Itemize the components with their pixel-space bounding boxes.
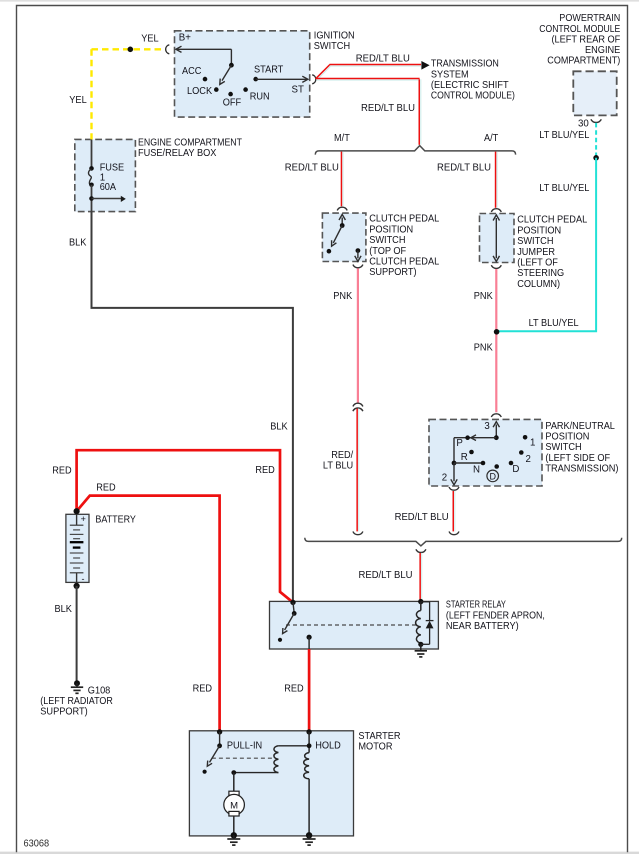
ignition contact ACC xyxy=(182,66,207,81)
PN contact D circled xyxy=(487,464,499,482)
clutch switch connector bottom xyxy=(353,265,363,268)
svg-text:N: N xyxy=(473,465,480,476)
svg-text:(LEFT SIDE OF: (LEFT SIDE OF xyxy=(545,453,610,464)
label RED (hold) xyxy=(284,683,303,694)
svg-text:2: 2 xyxy=(526,454,531,465)
svg-text:CLUTCH PEDAL: CLUTCH PEDAL xyxy=(369,257,440,268)
svg-text:ENGINE: ENGINE xyxy=(585,45,621,56)
label LT BLU/YEL mid xyxy=(539,183,590,194)
diagram number 63068 xyxy=(24,838,50,849)
label LT BLU/YEL at jog xyxy=(529,318,580,329)
wire RED/LT BLU M/T branch xyxy=(341,152,343,207)
ignition B+ connector xyxy=(166,45,170,54)
svg-text:B+: B+ xyxy=(179,33,191,44)
svg-text:RED: RED xyxy=(52,465,71,476)
svg-text:CLUTCH PEDAL: CLUTCH PEDAL xyxy=(517,215,588,226)
PN switch connector top xyxy=(491,414,501,417)
clutch pedal position switch jumper box xyxy=(480,214,588,290)
page top strip xyxy=(0,0,639,2)
label RED/LT BLU (A/T) xyxy=(437,163,491,174)
svg-text:(LEFT RADIATOR: (LEFT RADIATOR xyxy=(40,696,113,707)
jumper connector bottom xyxy=(491,265,501,268)
splice PNK / LT BLU/YEL xyxy=(494,329,500,335)
wire RED relay to starter hold xyxy=(308,649,311,732)
starter relay box xyxy=(270,600,545,650)
svg-text:STARTER RELAY: STARTER RELAY xyxy=(446,600,506,611)
motor branch xyxy=(231,770,278,791)
svg-text:R: R xyxy=(461,452,468,463)
ignition contact RUN xyxy=(243,87,269,102)
svg-text:D: D xyxy=(512,464,519,475)
svg-text:POSITION: POSITION xyxy=(369,224,413,235)
svg-text:STARTER: STARTER xyxy=(358,731,400,742)
PN contact R xyxy=(461,450,474,464)
PN contact 1 xyxy=(523,435,536,449)
svg-text:LT BLU: LT BLU xyxy=(323,460,353,471)
splice on LT BLU/YEL xyxy=(593,155,599,161)
svg-text:OFF: OFF xyxy=(223,98,241,109)
svg-text:BLK: BLK xyxy=(270,421,288,432)
svg-text:PNK: PNK xyxy=(333,291,352,302)
fuse F1 60A xyxy=(88,139,124,211)
fuse feed branch arrow xyxy=(89,196,126,202)
svg-text:SUPPORT): SUPPORT) xyxy=(369,267,416,278)
svg-text:SWITCH: SWITCH xyxy=(369,235,405,246)
label PNK (left) xyxy=(333,291,352,302)
svg-text:RED: RED xyxy=(193,683,212,694)
wire RED/LT BLU ST to transmission system xyxy=(316,65,421,81)
label BLK (fuse) xyxy=(69,237,87,248)
PN pin 3 xyxy=(484,421,499,438)
label RED/LT BLU (branch feed) xyxy=(361,103,415,114)
connector cup below brace xyxy=(416,549,426,552)
ignition switch box xyxy=(175,30,355,117)
svg-text:RED/LT BLU: RED/LT BLU xyxy=(356,53,410,64)
jumper connector top xyxy=(491,209,501,212)
relay actuation dashed line xyxy=(286,624,417,626)
relay coil xyxy=(416,599,424,647)
svg-text:(LEFT FENDER APRON,: (LEFT FENDER APRON, xyxy=(446,610,545,621)
wire RED battery to starter pull-in xyxy=(77,496,220,732)
svg-text:SWITCH: SWITCH xyxy=(545,442,581,453)
svg-text:RED/LT BLU: RED/LT BLU xyxy=(437,163,491,174)
ignition contact OFF xyxy=(223,92,241,109)
svg-text:BLK: BLK xyxy=(69,237,87,248)
motor M xyxy=(224,791,245,835)
hold coil xyxy=(304,729,341,835)
svg-text:RUN: RUN xyxy=(250,91,270,102)
label YEL left xyxy=(69,95,87,106)
svg-text:30: 30 xyxy=(578,118,589,129)
label LT BLU/YEL upper xyxy=(539,130,590,141)
svg-text:M: M xyxy=(230,800,238,811)
svg-text:CONTROL MODULE): CONTROL MODULE) xyxy=(431,91,515,102)
label RED/LT BLU (M/T) xyxy=(285,163,339,174)
svg-text:(LEFT REAR OF: (LEFT REAR OF xyxy=(552,34,621,45)
label RED/ LT BLU two lines xyxy=(323,450,354,472)
starter motor ground left xyxy=(227,832,240,845)
park/neutral position switch box xyxy=(429,419,619,486)
svg-text:YEL: YEL xyxy=(69,95,87,106)
page bottom strip xyxy=(0,852,639,854)
svg-text:CONTROL MODULE: CONTROL MODULE xyxy=(539,24,620,35)
starter dashed actuation line xyxy=(212,757,276,759)
clutch switch connector top xyxy=(337,207,347,210)
svg-text:JUMPER: JUMPER xyxy=(517,247,555,258)
svg-text:SWITCH: SWITCH xyxy=(314,41,350,52)
relay clamp diode xyxy=(421,602,434,645)
wire RED/LT BLU PN to brace xyxy=(453,491,455,531)
label RED/LT BLU (PN branch) xyxy=(395,512,449,523)
wire BLK battery to G108 xyxy=(55,586,77,683)
svg-text:-: - xyxy=(82,574,85,584)
svg-text:BATTERY: BATTERY xyxy=(95,515,136,526)
svg-text:RED/LT BLU: RED/LT BLU xyxy=(359,570,413,581)
svg-text:POWERTRAIN: POWERTRAIN xyxy=(559,13,620,24)
relay ground xyxy=(415,644,427,657)
svg-text:RED: RED xyxy=(284,683,303,694)
label RED (battery feed) xyxy=(96,482,115,493)
wire LT BLU/YEL to PNK splice xyxy=(497,158,596,331)
wire PNK jumper down xyxy=(495,269,497,412)
svg-text:MOTOR: MOTOR xyxy=(358,742,392,753)
label PNK (right lower) xyxy=(474,342,493,353)
PN contact P xyxy=(456,435,470,449)
transmission system arrow xyxy=(421,59,515,102)
label RED (mid) xyxy=(255,465,274,476)
svg-text:RED/LT BLU: RED/LT BLU xyxy=(285,163,339,174)
svg-text:2: 2 xyxy=(442,473,447,484)
wire RED/LT BLU ST down to M/T-A/T branch xyxy=(316,79,420,145)
svg-text:STEERING: STEERING xyxy=(517,268,564,279)
ignition ST connector xyxy=(312,75,316,84)
svg-text:M/T: M/T xyxy=(334,133,350,144)
label RED/LT BLU (relay coil) xyxy=(359,570,413,581)
jumper double arrow xyxy=(493,215,499,262)
pull-in coil xyxy=(274,746,309,773)
wire LT BLU/YEL dashed from PCM xyxy=(595,123,597,157)
ground G108 xyxy=(40,680,113,717)
PN contact N xyxy=(473,461,485,476)
svg-text:ENGINE COMPARTMENT: ENGINE COMPARTMENT xyxy=(138,137,242,148)
svg-text:IGNITION: IGNITION xyxy=(314,30,355,41)
relay switch xyxy=(278,600,297,642)
svg-text:LT BLU/YEL: LT BLU/YEL xyxy=(529,318,580,329)
ignition terminal B+ xyxy=(176,33,232,66)
svg-text:CLUTCH PEDAL: CLUTCH PEDAL xyxy=(369,214,440,225)
svg-text:RED/: RED/ xyxy=(331,450,353,461)
svg-text:SYSTEM: SYSTEM xyxy=(431,69,469,80)
wire RED/LT BLU brace to relay coil xyxy=(420,553,422,602)
svg-text:+: + xyxy=(81,514,86,524)
label RED (pull-in) xyxy=(193,683,212,694)
connector cup above brace left xyxy=(353,532,363,535)
starter motor ground right xyxy=(303,832,316,845)
pull-in switch xyxy=(203,729,263,774)
engine compartment fuse/relay box xyxy=(75,137,242,211)
splice node on YEL wire xyxy=(128,47,134,53)
svg-text:PNK: PNK xyxy=(474,291,493,302)
PN contact D xyxy=(509,461,520,475)
svg-text:COLUMN): COLUMN) xyxy=(517,279,560,290)
clutch switch contacts xyxy=(327,214,362,261)
svg-text:RED: RED xyxy=(96,482,115,493)
clutch pedal position switch box xyxy=(322,213,439,278)
battery xyxy=(66,508,136,589)
svg-text:(TOP OF: (TOP OF xyxy=(369,246,406,257)
powertrain control module box xyxy=(539,13,620,115)
svg-text:POSITION: POSITION xyxy=(517,225,561,236)
svg-text:P: P xyxy=(456,438,462,449)
svg-text:ST: ST xyxy=(292,84,304,95)
svg-text:YEL: YEL xyxy=(141,34,159,45)
merge brace to starter relay xyxy=(305,538,622,546)
svg-text:A/T: A/T xyxy=(484,133,498,144)
inline connector pair left xyxy=(353,403,363,411)
svg-text:PARK/NEUTRAL: PARK/NEUTRAL xyxy=(545,421,615,432)
ignition ST output xyxy=(256,76,308,95)
wire RED/LT BLU A/T branch xyxy=(496,152,498,208)
ignition contact LOCK xyxy=(187,86,219,97)
PN connector bottom xyxy=(449,487,459,490)
svg-text:PULL-IN: PULL-IN xyxy=(227,741,262,752)
wire RED/LT BLU left to brace xyxy=(357,409,359,532)
svg-text:63068: 63068 xyxy=(24,838,50,849)
svg-text:D: D xyxy=(489,471,496,481)
svg-text:(LEFT OF: (LEFT OF xyxy=(517,258,558,269)
svg-text:G108: G108 xyxy=(88,685,111,696)
svg-text:3: 3 xyxy=(484,421,489,432)
PN wiper path xyxy=(451,435,499,485)
svg-text:START: START xyxy=(254,64,283,75)
wire YEL fuse to ignition B+ xyxy=(92,49,166,139)
ignition wiper arm xyxy=(220,63,234,85)
svg-text:SWITCH: SWITCH xyxy=(517,236,553,247)
svg-text:POSITION: POSITION xyxy=(545,432,589,443)
svg-text:FUSE/RELAY BOX: FUSE/RELAY BOX xyxy=(138,148,217,159)
PCM pin 30 xyxy=(578,118,601,129)
svg-text:RED: RED xyxy=(255,465,274,476)
svg-text:NEAR BATTERY): NEAR BATTERY) xyxy=(446,621,519,632)
PN pin 2 xyxy=(442,473,447,484)
svg-text:LT BLU/YEL: LT BLU/YEL xyxy=(539,130,590,141)
svg-text:LT BLU/YEL: LT BLU/YEL xyxy=(539,183,590,194)
svg-text:HOLD: HOLD xyxy=(315,741,341,752)
relay output contact xyxy=(307,635,312,649)
ignition contact START xyxy=(253,64,283,81)
svg-text:SUPPORT): SUPPORT) xyxy=(40,707,87,718)
label PNK (right upper) xyxy=(474,291,493,302)
svg-text:LOCK: LOCK xyxy=(187,86,213,97)
svg-text:RED/LT BLU: RED/LT BLU xyxy=(361,103,415,114)
svg-text:RED/LT BLU: RED/LT BLU xyxy=(395,512,449,523)
svg-text:1: 1 xyxy=(530,438,535,449)
label YEL top xyxy=(141,34,159,45)
svg-text:PNK: PNK xyxy=(474,342,493,353)
wire PNK clutch switch down xyxy=(357,268,359,403)
connector cup above brace right xyxy=(449,532,459,535)
label RED/LT BLU (to transmission) xyxy=(356,53,410,64)
branch brace M/T A/T xyxy=(315,133,515,155)
svg-text:(ELECTRIC SHIFT: (ELECTRIC SHIFT xyxy=(431,80,509,91)
label BLK (relay feed) xyxy=(270,421,288,432)
label RED (left) xyxy=(52,465,71,476)
starter motor box xyxy=(189,731,400,836)
svg-text:COMPARTMENT): COMPARTMENT) xyxy=(547,56,620,67)
svg-text:TRANSMISSION): TRANSMISSION) xyxy=(545,464,618,475)
svg-text:60A: 60A xyxy=(100,182,117,193)
svg-text:ACC: ACC xyxy=(182,66,201,77)
PN contact 2 xyxy=(519,450,531,465)
wire RED battery to relay common xyxy=(77,450,293,602)
svg-text:TRANSMISSION: TRANSMISSION xyxy=(431,59,499,70)
wire BLK fuse box to relay xyxy=(92,212,293,602)
svg-text:BLK: BLK xyxy=(55,604,73,615)
